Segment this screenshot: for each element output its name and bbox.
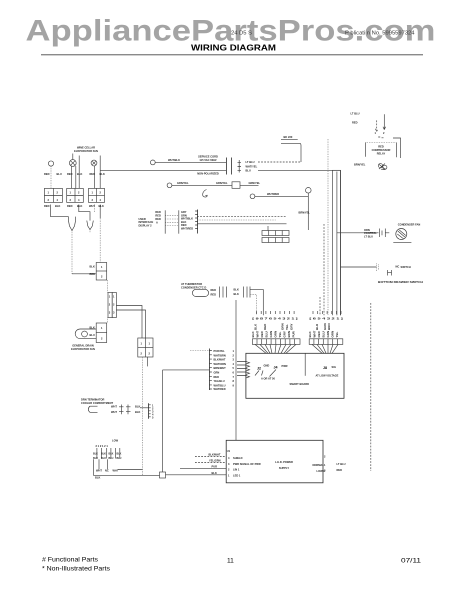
svg-text:GRN: GRN <box>214 371 220 375</box>
svg-text:3: 3 <box>70 198 72 202</box>
svg-text:BLU: BLU <box>246 168 251 172</box>
wire labels <box>214 349 227 391</box>
svg-text:DISPLAY 2: DISPLAY 2 <box>139 223 153 227</box>
svg-text:J8: J8 <box>323 366 327 370</box>
ground lug box <box>232 182 240 189</box>
svg-text:COOLER COMPARTMENT: COOLER COMPARTMENT <box>81 401 113 405</box>
svg-text:3: 3 <box>48 198 50 202</box>
vert x236 <box>235 300 237 440</box>
connector block A <box>44 188 62 202</box>
plug funnel 1 <box>69 217 76 231</box>
svg-text:RED: RED <box>337 468 343 472</box>
wire funnel1 down dotted <box>71 231 73 274</box>
svg-text:ORN: ORN <box>274 331 278 338</box>
svg-text:BLU: BLU <box>117 457 122 460</box>
svg-text:3: 3 <box>228 462 230 466</box>
svg-text:WHT/RED: WHT/RED <box>214 387 226 391</box>
capsule open <box>88 406 97 412</box>
link wires dotted <box>165 216 179 226</box>
trunk x336.9 <box>336 172 338 316</box>
svg-text:GENERAL DRAIN: GENERAL DRAIN <box>72 344 94 348</box>
svg-text:GND: GND <box>264 364 270 368</box>
wire dashed down arrow a <box>375 120 378 131</box>
thermistor capsule <box>192 289 208 296</box>
svg-text:WHT/BLK: WHT/BLK <box>168 158 180 162</box>
svg-text:WHT/ORN: WHT/ORN <box>214 362 227 366</box>
ground wire <box>172 184 232 186</box>
pin stubs J8 <box>313 311 341 314</box>
svg-text:PWR: PWR <box>282 364 288 368</box>
svg-text:WIRING DIAGRAM: WIRING DIAGRAM <box>191 44 276 53</box>
svg-text:GRN/YEL: GRN/YEL <box>249 181 261 185</box>
svg-text:GRN/YEL: GRN/YEL <box>216 181 228 185</box>
svg-text:LT BLU: LT BLU <box>364 235 373 239</box>
terminal ring L3 <box>250 194 255 199</box>
svg-text:1: 1 <box>324 463 326 467</box>
svg-text:COMPRESSOR: COMPRESSOR <box>372 148 391 152</box>
svg-text:1: 1 <box>48 191 50 195</box>
wire grid out left <box>51 205 69 217</box>
compressor pins scribble <box>378 164 382 168</box>
svg-text:DRN TERMINATOR: DRN TERMINATOR <box>81 398 105 402</box>
terminal ring L1 <box>150 160 155 165</box>
svg-text:WHT/RED: WHT/RED <box>267 192 279 196</box>
connector block C <box>89 188 105 202</box>
wire dotted to top pin <box>190 350 209 352</box>
motor M2 <box>69 160 76 167</box>
svg-text:SUPPLY: SUPPLY <box>279 466 289 470</box>
board pins left <box>246 362 250 378</box>
svg-text:SIG: SIG <box>332 365 336 369</box>
svg-text:GRN: GRN <box>269 331 273 338</box>
svg-text:WHT/BRN: WHT/BRN <box>214 353 226 357</box>
svg-text:1: 1 <box>101 326 103 330</box>
svg-text:CONDENSER FAN: CONDENSER FAN <box>398 223 421 227</box>
svg-text:WHT: WHT <box>256 331 260 338</box>
svg-text:1: 1 <box>149 342 151 346</box>
svg-text:RED: RED <box>263 323 267 330</box>
svg-text:RED: RED <box>211 293 217 297</box>
wire BLK in <box>166 474 227 476</box>
svg-text:1: 1 <box>109 295 111 299</box>
svg-text:ORN: ORN <box>281 323 285 330</box>
drop wires <box>93 459 107 475</box>
plug pins <box>238 162 242 170</box>
wire lower to plug <box>100 170 226 172</box>
plug ring R <box>306 188 312 194</box>
pin numbers <box>233 349 235 387</box>
svg-text:SERVICE CORD: SERVICE CORD <box>198 155 218 159</box>
svg-text:YEL: YEL <box>335 331 339 337</box>
svg-text:EVAPORATOR FAN: EVAPORATOR FAN <box>74 149 98 153</box>
svg-text:1: 1 <box>228 474 230 478</box>
svg-text:WHT: WHT <box>96 468 102 472</box>
svg-text:BRN: BRN <box>287 331 291 338</box>
connector bars 2 <box>244 287 251 298</box>
svg-text:07/11: 07/11 <box>401 558 421 565</box>
smart board box <box>246 353 344 398</box>
trunk x340.5 lower <box>340 170 342 315</box>
svg-text:BLK: BLK <box>93 453 98 456</box>
strip pin up <box>267 226 269 231</box>
svg-text:BLU: BLU <box>322 331 326 337</box>
svg-text:AT THERMISTOR: AT THERMISTOR <box>181 282 202 286</box>
wire UI solid <box>197 223 287 225</box>
svg-text:GRY: GRY <box>290 324 294 330</box>
divider <box>304 353 306 376</box>
wire frame tall a <box>78 156 80 189</box>
svg-text:4: 4 <box>78 198 80 202</box>
svg-text:PUR: PUR <box>212 465 218 469</box>
svg-text:WHT: WHT <box>113 468 119 472</box>
wire label stub to motor <box>72 154 74 160</box>
svg-text:BLK: BLK <box>234 292 239 296</box>
label column smudges row2 <box>251 330 339 337</box>
svg-text:BLK/WHT: BLK/WHT <box>209 453 221 457</box>
wire to condenser fan <box>337 232 379 234</box>
svg-text:WINE CELLAR: WINE CELLAR <box>77 146 95 150</box>
wire grid out mid <box>79 205 90 221</box>
defrost thermostat capsule <box>75 329 96 339</box>
svg-text:LIN 1: LIN 1 <box>233 468 240 472</box>
svg-text:BLK: BLK <box>212 471 217 475</box>
svg-text:RED: RED <box>352 121 358 125</box>
svg-text:J4: J4 <box>274 366 278 370</box>
wire therm right dotted <box>250 294 256 315</box>
wire J-col right a <box>116 306 142 339</box>
wire P3 down long dashed <box>142 357 144 475</box>
wire LT BLU dashed to hook <box>258 161 301 163</box>
title underline <box>41 54 423 56</box>
wire UI dashed <box>197 215 287 217</box>
svg-text:[ 9 8 7 6 5 4 3 2 1 ]: [ 9 8 7 6 5 4 3 2 1 ] <box>252 316 298 320</box>
wire dashed in b <box>195 462 226 464</box>
svg-text:2 1 2 1 2 1: 2 1 2 1 2 1 <box>96 444 109 448</box>
wire feed horizontal <box>163 369 210 371</box>
wire BLK bottom <box>93 474 159 476</box>
wire therm right solid <box>250 290 263 316</box>
svg-text:P blicati n No. 5995597324: P blicati n No. 5995597324 <box>345 31 415 37</box>
svg-text:SHIELD: SHIELD <box>233 456 243 460</box>
leader lines <box>255 370 276 377</box>
svg-text:2: 2 <box>57 191 59 195</box>
svg-text:YEL/BLU: YEL/BLU <box>214 379 225 383</box>
connector P1 <box>96 263 107 281</box>
wire R down <box>307 193 309 230</box>
svg-text:RED: RED <box>90 172 96 176</box>
ground clip squiggle <box>203 190 208 198</box>
svg-text:WHT/YEL: WHT/YEL <box>246 164 258 168</box>
svg-text:3: 3 <box>233 358 235 362</box>
motor M3 <box>91 160 97 166</box>
svg-text:[ 6 5 4 3 2 1 ]: [ 6 5 4 3 2 1 ] <box>309 316 343 320</box>
svg-text:4: 4 <box>228 456 230 460</box>
trunk dashed x320 <box>319 297 321 315</box>
connector bars 1 <box>220 287 227 298</box>
plug bars <box>225 158 227 175</box>
svg-text:BLK: BLK <box>135 404 140 408</box>
svg-text:2: 2 <box>141 352 143 356</box>
plug strip J8 <box>309 339 343 345</box>
svg-text:RED: RED <box>44 172 50 176</box>
svg-text:ORN: ORN <box>331 331 335 338</box>
svg-text:3: 3 <box>324 469 326 473</box>
svg-text:CONTROL: CONTROL <box>364 231 377 235</box>
svg-text:8: 8 <box>233 379 235 383</box>
svg-text:SMART BOARD: SMART BOARD <box>290 382 310 386</box>
wire M3 down <box>94 166 96 189</box>
svg-text:2: 2 <box>101 337 103 341</box>
trunk junction top <box>333 169 341 171</box>
strip row1 <box>262 231 289 236</box>
svg-text:BLU: BLU <box>101 457 106 460</box>
trunk dashed x324 <box>323 224 325 315</box>
wire M1 down dotted <box>50 166 52 188</box>
svg-text:NC: NC <box>105 468 109 472</box>
svg-text:* Non-Illustrated Parts: * Non-Illustrated Parts <box>42 566 110 573</box>
trunk dotted x328 <box>327 139 329 315</box>
svg-text:WHT: WHT <box>111 404 117 408</box>
svg-text:PWR SIGNAL OF PWR: PWR SIGNAL OF PWR <box>233 462 261 466</box>
wire solid down arrow b <box>383 114 386 129</box>
svg-text:RED: RED <box>260 330 264 337</box>
svg-text:RED: RED <box>44 204 50 208</box>
wire grid stub a <box>94 205 96 214</box>
svg-text:BLU: BLU <box>265 331 269 337</box>
wire end plug <box>377 264 379 272</box>
svg-text:RED: RED <box>214 375 220 379</box>
wire funnel1 to P1 <box>72 273 96 275</box>
svg-text:BLU: BLU <box>90 333 95 337</box>
fan motor circle <box>396 229 407 240</box>
svg-text:2: 2 <box>228 468 230 472</box>
wire BLU long <box>258 170 341 315</box>
svg-text:AT LOW VOLTAGE: AT LOW VOLTAGE <box>316 374 339 378</box>
svg-text:1: 1 <box>92 191 94 195</box>
label flag line <box>281 139 298 141</box>
wire funnel2 stub <box>89 230 91 234</box>
thermostat bulb <box>82 331 88 337</box>
capacitor pins <box>380 229 390 238</box>
fan underline <box>393 241 411 243</box>
svg-text:SWITCH: SWITCH <box>401 265 411 269</box>
plug funnel 2 <box>87 221 94 230</box>
svg-text:4: 4 <box>57 198 59 202</box>
wire hook up <box>281 143 301 162</box>
svg-text:BLU: BLU <box>315 324 319 330</box>
svg-text:LT BLU: LT BLU <box>246 160 255 164</box>
pin stubs J4 <box>257 311 295 314</box>
svg-text:BLU: BLU <box>93 457 98 460</box>
wire to switch <box>341 266 377 268</box>
strip row2 <box>262 238 289 243</box>
svg-text:1: 1 <box>233 349 235 353</box>
svg-text:9: 9 <box>233 383 235 387</box>
svg-text:A: A <box>156 220 158 224</box>
wire M2 down a <box>71 166 73 188</box>
svg-text:LT BLU: LT BLU <box>337 462 346 466</box>
svg-text:2: 2 <box>383 131 385 135</box>
fan-in wires J4 <box>255 344 296 353</box>
svg-text:11: 11 <box>227 558 234 565</box>
svg-text:BLK: BLK <box>101 453 106 456</box>
svg-text:WHT: WHT <box>111 410 117 414</box>
svg-text:BLK: BLK <box>109 453 114 456</box>
svg-text:RED: RED <box>90 272 96 276</box>
wire stub b dotted down <box>99 218 101 263</box>
svg-text:# Functional Parts: # Functional Parts <box>42 557 98 564</box>
svg-text:2: 2 <box>78 191 80 195</box>
svg-text:BRN/YEL: BRN/YEL <box>299 211 311 215</box>
svg-text:7: 7 <box>233 375 235 379</box>
connector P2 <box>96 323 107 343</box>
svg-text:RED: RED <box>378 145 384 149</box>
corner bracket <box>393 138 401 158</box>
chevron pins to board <box>237 362 247 376</box>
svg-text:L.E.D. POWER: L.E.D. POWER <box>275 460 293 464</box>
svg-text:BLK: BLK <box>117 453 122 456</box>
svg-text:BLK: BLK <box>95 476 100 480</box>
relay box <box>366 143 397 158</box>
svg-text:GRY: GRY <box>283 331 287 337</box>
svg-text:BLK: BLK <box>254 323 258 330</box>
connector block B <box>67 188 84 202</box>
svg-text:BRN/WHT: BRN/WHT <box>214 366 227 370</box>
wire P3 stub solid <box>147 357 149 366</box>
svg-text:NORMAL: NORMAL <box>313 463 325 467</box>
svg-text:2: 2 <box>101 275 103 279</box>
svg-text:WHT/RED: WHT/RED <box>181 227 193 231</box>
svg-text:U1: U1 <box>227 449 231 453</box>
svg-text:2: 2 <box>109 303 111 307</box>
svg-text:BLK: BLK <box>234 287 239 291</box>
connector bar 3 <box>197 210 199 234</box>
grid verticals <box>97 448 120 459</box>
svg-text:2: 2 <box>100 191 102 195</box>
svg-text:YEL/GRN: YEL/GRN <box>209 459 221 463</box>
svg-text:EVAPORATOR FAN: EVAPORATOR FAN <box>71 347 95 351</box>
svg-text:BLU: BLU <box>57 172 62 176</box>
svg-text:1: 1 <box>113 295 115 299</box>
wire to column <box>140 407 149 409</box>
pin ticks <box>378 136 383 139</box>
svg-text:CONDENSER CTC D: CONDENSER CTC D <box>181 286 206 290</box>
svg-text:1: 1 <box>101 265 103 269</box>
wire M2 down b <box>75 166 77 188</box>
svg-text:BRN: BRN <box>327 324 331 331</box>
svg-text:LED 1: LED 1 <box>233 474 241 478</box>
grid labels row2 <box>93 457 122 460</box>
svg-text:BRN/YEL: BRN/YEL <box>354 163 366 167</box>
connector bar <box>208 349 210 391</box>
svg-text:BLK: BLK <box>99 204 104 208</box>
connector bar 2 <box>178 210 180 233</box>
vertical dashed x371 <box>370 303 372 471</box>
svg-text:BLK: BLK <box>55 204 60 208</box>
wire PUR <box>180 468 226 470</box>
ground ring L2 <box>167 183 172 188</box>
svg-text:BLK: BLK <box>77 172 82 176</box>
svg-text:2: 2 <box>149 352 151 356</box>
svg-text:RED: RED <box>67 204 73 208</box>
svg-text:3: 3 <box>113 311 115 315</box>
svg-text:RED: RED <box>67 172 73 176</box>
svg-text:RED: RED <box>211 288 217 292</box>
svg-text:BLK/WHT: BLK/WHT <box>214 358 226 362</box>
svg-text:BOTTOM DRAWER SWITCH: BOTTOM DRAWER SWITCH <box>378 280 423 284</box>
svg-text:BLK: BLK <box>77 204 82 208</box>
switch symbol <box>388 270 392 276</box>
motor M1 <box>48 161 53 166</box>
plug strip J4 <box>252 339 300 345</box>
connector J-col two column <box>108 293 112 318</box>
wire L3 right <box>255 195 308 197</box>
fan-in wires J8 <box>312 344 338 353</box>
svg-text:BLK: BLK <box>308 331 312 338</box>
svg-text:1: 1 <box>70 191 72 195</box>
svg-text:LOW: LOW <box>112 439 119 443</box>
svg-text:ORN: ORN <box>364 228 370 232</box>
svg-text:4: 4 <box>233 362 235 366</box>
led supply box <box>226 440 323 483</box>
svg-text:BK 230: BK 230 <box>284 135 293 139</box>
svg-text:BLK: BLK <box>135 410 140 414</box>
svg-text:5: 5 <box>233 366 235 370</box>
trunk x332.5 <box>332 170 334 315</box>
svg-text:BLK: BLK <box>90 265 95 269</box>
wire UI dotted <box>197 219 276 221</box>
svg-text:24 D5 S: 24 D5 S <box>231 31 252 37</box>
junction box <box>160 472 166 478</box>
connector bar 1 <box>164 210 166 233</box>
wire dashed in a <box>195 456 226 458</box>
connector P3 <box>138 338 153 357</box>
ground wire right <box>240 184 259 186</box>
svg-text:6: 6 <box>233 371 235 375</box>
svg-text:PUR: PUR <box>292 330 296 337</box>
svg-text:WHT: WHT <box>313 331 317 338</box>
label column smudges row1 J4 <box>254 323 332 330</box>
wire frame tall b <box>99 156 101 189</box>
wire feed vertical <box>162 370 164 472</box>
svg-text:WHT/BLU: WHT/BLU <box>214 383 226 387</box>
svg-text:2: 2 <box>113 303 115 307</box>
svg-text:WHT: WHT <box>89 204 95 208</box>
wire WHT right <box>118 469 143 471</box>
svg-text:NON-POLARIZED: NON-POLARIZED <box>197 172 219 176</box>
wire grid stub b <box>99 205 101 219</box>
svg-text:GRN/YEL: GRN/YEL <box>177 181 189 185</box>
grid labels row1 <box>93 453 122 456</box>
svg-text:RELAY: RELAY <box>377 151 386 155</box>
svg-text:1: 1 <box>375 131 377 135</box>
svg-text:J2: J2 <box>257 367 261 371</box>
svg-text:3: 3 <box>92 198 94 202</box>
wire J-col right b <box>116 310 145 338</box>
svg-text:BLK: BLK <box>100 172 105 176</box>
svg-text:BLU: BLU <box>109 457 114 460</box>
svg-text:PUR/YEL: PUR/YEL <box>214 349 226 353</box>
svg-text:YEL: YEL <box>278 331 282 337</box>
svg-text:RED: RED <box>155 217 161 221</box>
connector bars <box>122 405 129 415</box>
wire L1 to plug <box>155 161 226 163</box>
svg-text:NC: NC <box>396 265 400 269</box>
svg-text:1: 1 <box>141 342 143 346</box>
svg-text:A OR AT 50: A OR AT 50 <box>261 376 275 380</box>
svg-text:115 VAC 60HZ: 115 VAC 60HZ <box>199 158 217 162</box>
svg-text:3: 3 <box>109 311 111 315</box>
